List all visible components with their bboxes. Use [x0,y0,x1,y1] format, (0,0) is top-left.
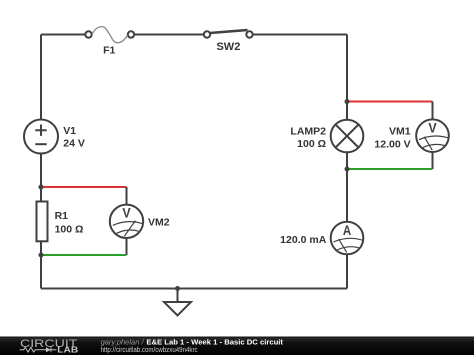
svg-text:24 V: 24 V [63,138,85,150]
wire: VM2 bottom lead [126,238,128,255]
svg-text:LAMP2: LAMP2 [290,125,326,137]
wire: R1 bottom node to R1 [40,241,42,255]
wire: top rail left segment [41,34,85,36]
resistor R1 [37,202,84,242]
wire: top rail right segment [253,34,347,36]
svg-text:V: V [428,121,436,136]
node: LAMP2 bottom junction [345,167,350,172]
fuse F1 [85,27,134,57]
wire: top rail between fuse and switch [134,34,204,36]
CircuitLab logo [20,338,79,354]
svg-text:12.00 V: 12.00 V [374,138,410,150]
svg-text:100 Ω: 100 Ω [55,224,84,236]
svg-text:100 Ω: 100 Ω [297,138,326,150]
wire: node to ammeter top [346,169,348,222]
node: V1/R1 junction [39,185,44,190]
wire: VM1 top lead [432,102,434,120]
svg-text:R1: R1 [55,210,69,222]
wire: VM2 top lead [126,187,128,205]
svg-text:http://circuitlab.com/cwbzxu49: http://circuitlab.com/cwbzxu49n4krc [101,345,198,354]
svg-text:F1: F1 [103,45,115,57]
svg-text:LAB: LAB [57,344,78,354]
switch SW2 [204,30,253,53]
svg-text:VM2: VM2 [148,217,170,229]
ammeter AM1 [280,222,363,255]
wire: red highlighted LAMP2 top node to VM1 [347,101,433,103]
voltmeter VM1 [374,119,448,152]
voltmeter VM2 [110,205,170,238]
wire: left vertical bottom (bottom rail to R1 bottom node) [40,255,42,289]
svg-text:A: A [343,223,352,238]
wire: node to V1 bottom [40,154,42,188]
svg-text:V: V [122,206,130,221]
wire: R1 top to node [40,187,42,202]
footer credit text [101,337,284,353]
svg-text:SW2: SW2 [216,41,240,53]
node: LAMP2 top junction [345,99,350,104]
wire: lamp bottom to node [346,152,348,169]
wire: right vertical (top corner to LAMP2 node) [346,35,348,102]
wire: LAMP2 node to lamp top [346,102,348,120]
wire: ammeter bottom to bottom rail [346,254,348,288]
svg-text:120.0 mA: 120.0 mA [280,234,327,246]
svg-text:VM1: VM1 [389,125,411,137]
wire: red highlighted R1 top node to VM2 [41,186,127,188]
wire: bottom rail [41,288,347,290]
node: ground junction [175,286,180,291]
lamp LAMP2 [290,120,363,153]
wire: left vertical top (V1 top to top-left corner) [40,35,42,120]
node: R1 bottom junction [39,253,44,258]
wire: green R1 bottom node to VM2 [41,254,127,256]
wire: green LAMP2 bottom node to VM1 [347,168,433,170]
ground [164,289,191,316]
wire: VM1 bottom lead [432,152,434,169]
svg-text:V1: V1 [63,125,76,137]
voltage source V1 [24,120,85,154]
